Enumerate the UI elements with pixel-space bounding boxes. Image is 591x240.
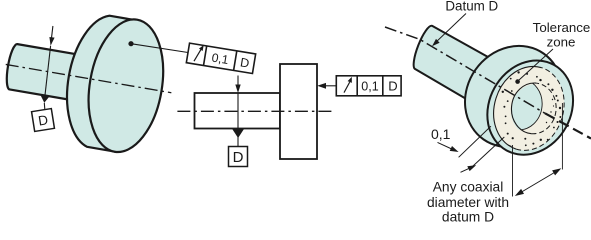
svg-text:D: D	[388, 79, 397, 94]
axis of right figure	[385, 27, 545, 113]
large cylinder rear/rim silhouette	[445, 27, 582, 166]
tolerance zone annulus (cream ring)	[494, 66, 564, 150]
svg-text:Any coaxial: Any coaxial	[433, 180, 504, 195]
extension lines + diameter dimension	[561, 103, 563, 170]
svg-text:diameter with: diameter with	[427, 195, 509, 210]
lens boundary arc	[517, 79, 542, 130]
runout symbol	[194, 49, 201, 62]
feature control frame (middle)	[336, 76, 401, 96]
stipple dots on ring	[502, 71, 562, 146]
datum triangle (bottom, left figure)	[40, 95, 49, 103]
leader arrow to flange	[324, 85, 336, 87]
top arrow on shaft	[237, 76, 239, 87]
face seen through tube (cyan lens)	[495, 77, 544, 132]
small cylinder (right figure, isometric)	[414, 26, 497, 100]
runout symbol (middle frame)	[344, 82, 350, 93]
hidden rear edge of zone (dashed, in ring)	[489, 111, 512, 147]
shaft rectangle	[195, 93, 281, 129]
flange rectangle	[280, 64, 317, 159]
datum leader arrow (top, left figure)	[52, 26, 53, 38]
dot on disk face + leader to frame	[128, 41, 133, 46]
datum box D (left figure)	[32, 109, 55, 132]
svg-text:Datum D: Datum D	[445, 0, 498, 14]
datum box D (middle)	[229, 147, 248, 167]
feature control frame (left, rotated)	[186, 43, 255, 74]
inner wall of tolerance tube (cream)	[509, 81, 558, 136]
svg-text:0,1: 0,1	[361, 79, 378, 93]
small cylinder (shaft of left part)	[4, 43, 86, 101]
large disk front face ellipse	[79, 14, 173, 158]
centerline middle figure	[177, 110, 332, 112]
datum triangle (middle)	[232, 129, 244, 139]
svg-text:0,1: 0,1	[431, 126, 451, 142]
small marks on inner wall crescent	[546, 99, 554, 123]
large disk silhouette (rim)	[58, 11, 167, 157]
svg-text:zone: zone	[547, 35, 576, 50]
leader through shaft	[237, 93, 239, 147]
svg-text:D: D	[233, 149, 244, 166]
large cylinder front face	[471, 45, 590, 170]
svg-text:Tolerance: Tolerance	[533, 20, 591, 35]
svg-text:datum D: datum D	[442, 210, 494, 223]
ring outlines	[494, 66, 542, 149]
leader line through shaft	[45, 46, 51, 96]
svg-text:0,1: 0,1	[211, 50, 230, 67]
centerline left figure	[6, 64, 172, 92]
